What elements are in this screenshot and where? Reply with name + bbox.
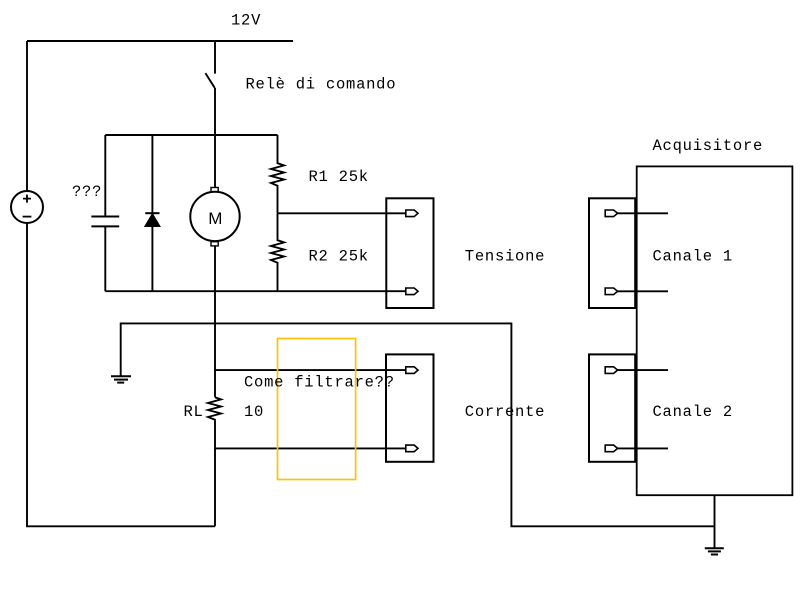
annotation box Come filtrare: [278, 339, 356, 480]
wire motor bottom down to RL: [214, 246, 216, 397]
connector J1 Tensione: [386, 198, 433, 308]
pin J3-1: [605, 210, 617, 217]
voltage source V1: [11, 191, 43, 223]
wire J3-1 into box: [618, 212, 668, 214]
svg-text:R1 25k: R1 25k: [309, 168, 369, 186]
svg-text:???: ???: [72, 183, 102, 201]
svg-text:12V: 12V: [231, 11, 261, 29]
wire acquisitore ground stem: [714, 495, 716, 548]
svg-text:Relè di comando: Relè di comando: [246, 76, 397, 94]
svg-text:RL: RL: [184, 403, 204, 421]
wire tap to Corrente pin2: [215, 447, 406, 449]
motor U1: [190, 192, 239, 241]
wire source bottom to bottom rail: [27, 223, 215, 526]
svg-text:Canale 2: Canale 2: [653, 403, 733, 421]
connector J3 Canale 1: [589, 198, 635, 308]
connector J4 Canale 2: [589, 354, 635, 461]
wire J4-2 into box: [618, 447, 668, 449]
switch S1 blade: [205, 73, 214, 88]
wire tap to Corrente pin1: [215, 369, 406, 371]
pin J3-2: [605, 288, 617, 295]
svg-text:R2 25k: R2 25k: [309, 248, 369, 266]
wire tap R1-R2 to Tensione pin1: [278, 212, 406, 214]
resistor RL: [208, 397, 221, 420]
wire J3-2 into box: [618, 290, 668, 292]
resistor R1: [271, 135, 284, 213]
capacitor C1: [104, 135, 106, 217]
wire ground branch to acquisitore: [121, 323, 715, 526]
diode D1: [151, 135, 153, 213]
pin J1-2: [406, 288, 418, 295]
pin J2-2: [406, 445, 418, 452]
wire parallel top rail: [105, 134, 277, 136]
svg-text:Canale 1: Canale 1: [653, 247, 733, 265]
svg-text:Tensione: Tensione: [465, 247, 545, 265]
svg-text:M: M: [208, 209, 222, 228]
svg-text:10: 10: [244, 403, 264, 421]
svg-text:Acquisitore: Acquisitore: [653, 137, 764, 155]
acquisitore box: [637, 166, 793, 495]
pin J4-2: [605, 445, 617, 452]
resistor R2: [271, 213, 284, 291]
wire switch lower lead to motor: [214, 88, 216, 188]
wire parallel bottom rail to Tensione pin2: [105, 290, 406, 292]
pin J2-1: [406, 367, 418, 374]
connector J2 Corrente: [386, 354, 434, 461]
wire top rail 12V: [27, 40, 293, 42]
wire J4-1 into box: [618, 369, 668, 371]
wire left rail to source top: [26, 41, 28, 191]
svg-text:Corrente: Corrente: [465, 403, 545, 421]
ground GND2: [705, 547, 724, 549]
ground GND1: [111, 375, 131, 377]
pin J4-1: [605, 367, 617, 374]
wire switch upper lead: [214, 41, 216, 74]
wire RL bottom down: [214, 421, 216, 527]
pin J1-1: [406, 210, 418, 217]
svg-text:Come filtrare??: Come filtrare??: [244, 373, 395, 391]
